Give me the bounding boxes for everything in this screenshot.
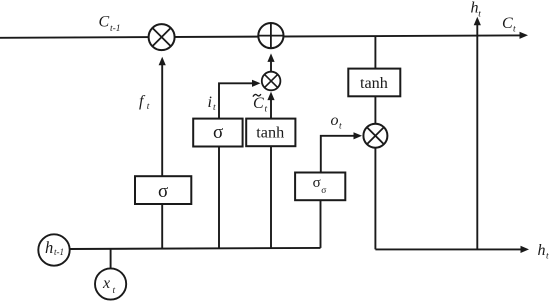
sigma box input gate — [193, 119, 242, 147]
wire cell-state line C (top horizontal) — [0, 35, 520, 37]
svg-text:tanh: tanh — [256, 124, 284, 142]
wire candidate C-tilde vertical — [270, 100, 272, 249]
label o_t — [331, 112, 343, 132]
arrowhead h_t output right — [521, 246, 530, 253]
arrowhead C-tilde into small multiplier — [267, 92, 274, 101]
output multiplier circle-X — [363, 124, 387, 148]
svg-text:t: t — [478, 10, 481, 20]
wire bottom-right h output line — [375, 248, 520, 250]
sigma-sub-sigma box output gate — [295, 173, 345, 201]
wire tanh box to output multiplier — [374, 96, 376, 125]
svg-text:t-1: t-1 — [110, 24, 121, 34]
svg-text:σ: σ — [158, 181, 168, 202]
arrowhead o into output multiplier — [354, 132, 363, 139]
wire small multiplier to adder — [270, 62, 272, 72]
node h_t-1 input circle — [38, 234, 69, 265]
svg-text:x: x — [102, 275, 110, 292]
node x_t input circle — [95, 268, 126, 299]
small multiplier circle-X (input x candidate) — [262, 72, 281, 91]
arrowhead C_t output right — [520, 32, 529, 39]
svg-text:C: C — [99, 13, 110, 30]
wire i gate vertical and horizontal into multiplier — [219, 83, 253, 248]
arrowhead into adder — [267, 53, 274, 62]
svg-text:t: t — [546, 252, 549, 262]
svg-text:t-1: t-1 — [54, 247, 64, 257]
arrowhead f into multiplier — [159, 57, 166, 66]
arrowhead i into small multiplier — [252, 80, 261, 87]
arrowhead h_t up — [474, 17, 481, 26]
label C_t — [502, 15, 516, 35]
svg-text:o: o — [331, 112, 339, 129]
tanh box output — [348, 69, 400, 97]
svg-text:t: t — [265, 105, 268, 115]
wire f gate vertical — [161, 65, 163, 249]
svg-text:t: t — [339, 122, 342, 132]
sigma box forget gate — [135, 176, 191, 204]
label C_t-1 — [99, 13, 121, 34]
wire output multiplier down to h line — [374, 147, 376, 249]
svg-text:t: t — [147, 102, 150, 112]
svg-text:t: t — [113, 286, 116, 296]
adder circle-plus on C line — [258, 23, 283, 48]
label h_t bottom right — [538, 242, 550, 262]
svg-text:C: C — [502, 15, 513, 32]
svg-text:C: C — [253, 95, 264, 112]
svg-text:tanh: tanh — [360, 74, 388, 92]
label i_t — [208, 94, 217, 113]
svg-text:t: t — [513, 25, 516, 35]
multiplier (forget gate) circle-X on C line — [149, 24, 175, 50]
svg-text:h: h — [538, 242, 546, 259]
tanh box candidate — [246, 119, 295, 147]
svg-text:σ: σ — [213, 122, 223, 143]
wire sigma-o drop to bottom line — [320, 188, 322, 248]
svg-text:h: h — [45, 238, 53, 257]
svg-text:σ: σ — [313, 175, 321, 191]
label f_t — [139, 93, 150, 112]
wire o gate up and right into output multiplier — [321, 136, 354, 174]
wire x_t connector — [110, 249, 112, 269]
svg-text:h: h — [471, 0, 479, 17]
wire bottom-left input line — [69, 248, 320, 249]
wire h vertical line to top — [476, 25, 478, 250]
label h_t top — [471, 0, 482, 20]
svg-text:t: t — [213, 103, 216, 113]
label C-tilde_t — [253, 94, 268, 114]
svg-text:σ: σ — [321, 186, 326, 196]
svg-text:f: f — [139, 93, 146, 110]
wire C line down into tanh box — [374, 36, 376, 70]
svg-text:i: i — [208, 94, 212, 111]
